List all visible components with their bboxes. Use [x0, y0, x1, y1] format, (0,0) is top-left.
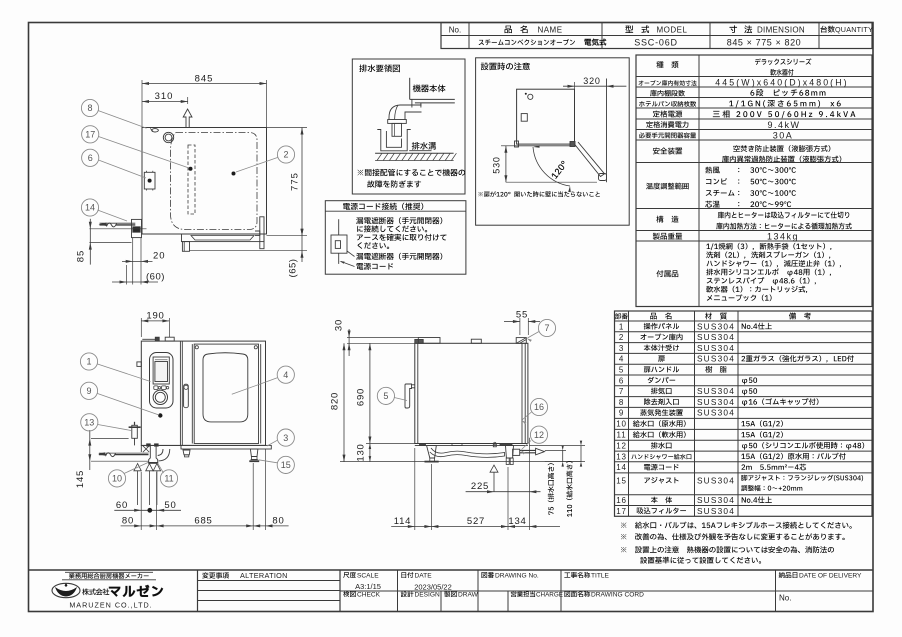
- plan view suction filter (dashed): [188, 145, 195, 214]
- dim (65): [190, 250, 308, 252]
- side: dim 130: [369, 444, 371, 462]
- dim 85 (cord offset): [89, 228, 146, 230]
- front: drain elbow: [158, 449, 170, 461]
- spec table labels: [656, 61, 678, 68]
- spec table values: [755, 58, 811, 65]
- side: bottom base: [415, 445, 528, 447]
- svg-text:12: 12: [534, 430, 544, 440]
- plan: small oval (deliming inlet, balloon 8): [152, 129, 159, 132]
- spec table grid: [636, 55, 872, 307]
- svg-text:134kg: 134kg: [767, 232, 799, 242]
- balloon 10: [124, 463, 148, 474]
- svg-text:No.: No.: [779, 594, 791, 603]
- svg-text:15: 15: [281, 460, 291, 470]
- front: base plate: [181, 445, 271, 449]
- svg-text:No.: No.: [449, 26, 461, 35]
- front: left tab: [137, 362, 141, 367]
- svg-text:MODEL: MODEL: [657, 26, 688, 35]
- front: door: [194, 344, 258, 443]
- front: dim 80/685/80: [140, 472, 142, 530]
- front: door window: [203, 353, 248, 422]
- side: hollow up arrow 225: [490, 465, 498, 492]
- front: under-panel piping: [140, 445, 142, 452]
- power cord box: [325, 201, 466, 275]
- svg-text:80: 80: [272, 515, 284, 526]
- title block grid: [29, 569, 874, 571]
- svg-text:2: 2: [283, 150, 288, 160]
- svg-text:11: 11: [617, 431, 627, 440]
- svg-text:SCALE: SCALE: [357, 573, 379, 580]
- front: dim 145: [91, 438, 129, 440]
- svg-text:130: 130: [355, 443, 366, 461]
- svg-text:225: 225: [471, 481, 489, 492]
- svg-text:134: 134: [508, 516, 526, 527]
- svg-text:30A: 30A: [773, 131, 794, 141]
- balloon 12: [522, 441, 532, 450]
- install: note text: [478, 191, 600, 197]
- side: floor line: [425, 461, 582, 463]
- svg-text:DRAW: DRAW: [458, 592, 479, 599]
- side: drain outlet box and arrow (balloon 12): [513, 449, 520, 455]
- svg-text:14: 14: [616, 463, 627, 472]
- notes: [621, 522, 852, 529]
- svg-text:2023/05/22: 2023/05/22: [414, 582, 452, 591]
- balloon 16: [523, 412, 532, 420]
- drain: ground hatch: [375, 152, 454, 154]
- svg-text:8: 8: [619, 398, 624, 407]
- power: breaker diagram: [338, 219, 340, 235]
- balloon 5: [394, 398, 407, 401]
- svg-text:MARUZEN CO.,LTD.: MARUZEN CO.,LTD.: [69, 601, 152, 610]
- svg-text:(65): (65): [288, 259, 299, 278]
- svg-text:7: 7: [544, 323, 549, 333]
- svg-text:(60): (60): [146, 272, 165, 283]
- svg-text:55: 55: [516, 310, 528, 321]
- plan: left damper component (balloon 6): [144, 172, 155, 189]
- install: dim 530: [501, 145, 517, 147]
- svg-text:SUS304: SUS304: [697, 386, 735, 396]
- svg-text:190: 190: [146, 310, 164, 321]
- title block labels: [202, 572, 229, 578]
- parts table header: [615, 313, 628, 319]
- plan: door handle bar (right): [260, 217, 264, 249]
- svg-text:20: 20: [153, 251, 166, 262]
- svg-text:DATE OF DELIVERY: DATE OF DELIVERY: [799, 573, 862, 580]
- svg-text:2: 2: [619, 333, 624, 342]
- svg-text:6: 6: [619, 376, 624, 385]
- balloon 6: [99, 160, 147, 178]
- svg-text:A3:1/15: A3:1/15: [355, 582, 381, 591]
- side: rear leg: [506, 446, 514, 458]
- top header table row: product name / model / dimension: [479, 39, 575, 45]
- svg-text:5: 5: [383, 391, 388, 401]
- plan: bottom tray: [182, 234, 265, 242]
- svg-text:50: 50: [164, 500, 176, 511]
- drain: floor gutter: [377, 130, 410, 151]
- svg-text:9.4kW: 9.4kW: [767, 120, 800, 130]
- svg-text:17: 17: [85, 130, 95, 140]
- front: top small parts: [142, 338, 155, 340]
- svg-text:3: 3: [283, 433, 288, 443]
- balloon 1: [98, 364, 151, 382]
- side: steam vent tick: [493, 444, 496, 447]
- svg-text:527: 527: [467, 516, 485, 527]
- front: water funnel and drain: [149, 446, 158, 462]
- balloon 15: [259, 460, 278, 463]
- front: panel/door divider: [179, 341, 181, 445]
- svg-text:9: 9: [619, 409, 624, 418]
- side: drain/water height dims: [545, 449, 566, 451]
- svg-text:114: 114: [394, 516, 412, 527]
- front: front-right leg: [250, 449, 258, 457]
- front: control panel bezel: [150, 353, 174, 409]
- svg-text:SUS304: SUS304: [697, 475, 735, 485]
- svg-text:30: 30: [334, 319, 345, 331]
- balloon 2: [236, 158, 278, 173]
- svg-text:CHECK: CHECK: [357, 592, 381, 599]
- dim (60): [126, 265, 128, 285]
- balloon 8: [98, 111, 147, 129]
- install: dim 320: [563, 85, 626, 87]
- plan: cord connector box: [132, 219, 142, 237]
- front: shower valve (balloon 13): [132, 425, 138, 438]
- side: dim 114/527/134: [414, 448, 416, 530]
- side: flexible drain hose: [430, 448, 505, 457]
- svg-text:10: 10: [616, 420, 627, 429]
- svg-text:1: 1: [86, 357, 91, 367]
- balloon 14: [98, 210, 128, 221]
- side: dim 690: [369, 343, 371, 443]
- balloon 17: [99, 137, 190, 169]
- front: dim 190: [140, 318, 142, 337]
- balloon 13: [98, 425, 131, 431]
- svg-text:DESIGN: DESIGN: [415, 592, 441, 599]
- svg-text:445(W)x640(D)x480(H): 445(W)x640(D)x480(H): [715, 77, 848, 87]
- svg-text:SUS304: SUS304: [697, 354, 735, 364]
- svg-text:13: 13: [84, 418, 94, 428]
- side: front leg: [427, 446, 437, 458]
- svg-text:4: 4: [283, 370, 288, 380]
- svg-text:ALTERATION: ALTERATION: [240, 571, 288, 580]
- front: panel dot (balloon 9): [158, 413, 162, 417]
- svg-text:16: 16: [534, 402, 544, 412]
- install: swing arc 120: [533, 147, 570, 186]
- svg-text:14: 14: [85, 203, 95, 213]
- plan view body outline: [142, 128, 267, 235]
- svg-text:11: 11: [164, 474, 173, 484]
- svg-text:4: 4: [619, 355, 624, 364]
- svg-text:80: 80: [122, 515, 134, 526]
- dim 845: [141, 80, 143, 127]
- parts table grid: [615, 311, 873, 516]
- balloon 4: [232, 378, 277, 395]
- svg-text:690: 690: [355, 388, 366, 406]
- front: buttons: [154, 386, 158, 390]
- side: dim 820: [343, 343, 345, 461]
- svg-text:SUS304: SUS304: [697, 408, 735, 418]
- front: display: [153, 357, 169, 384]
- install: oven plan rect: [517, 89, 575, 144]
- drain: down pipe: [392, 123, 402, 136]
- svg-text:1: 1: [619, 322, 624, 331]
- svg-text:7: 7: [619, 387, 624, 396]
- svg-text:85: 85: [76, 250, 87, 263]
- plan node: filter marker dot (balloon 17): [189, 167, 193, 171]
- plan: exhaust direction hollow arrow: [183, 109, 192, 128]
- svg-text:SUS304: SUS304: [697, 321, 735, 331]
- svg-text:CHARGE: CHARGE: [536, 592, 563, 599]
- front: supply arrows (hollow): [134, 464, 141, 506]
- drain: note: [358, 169, 466, 176]
- dim 775: [267, 127, 308, 129]
- install: hinge details: [515, 141, 519, 147]
- svg-text:SSC-06D: SSC-06D: [634, 38, 678, 48]
- drain: gutter label: [412, 142, 436, 150]
- svg-text:16: 16: [616, 496, 627, 505]
- front: knob: [153, 390, 167, 404]
- dim 20: [132, 238, 134, 285]
- svg-text:SUS304: SUS304: [697, 343, 735, 353]
- balloon 9: [98, 394, 160, 416]
- drain: elbow: [389, 105, 422, 120]
- svg-text:DIMENSION: DIMENSION: [757, 26, 805, 35]
- svg-text:845: 845: [195, 74, 214, 85]
- svg-text:SUS304: SUS304: [697, 397, 735, 407]
- install: wall line: [606, 79, 608, 183]
- side view body: [415, 343, 528, 443]
- svg-text:685: 685: [194, 515, 212, 526]
- svg-text:SUS304: SUS304: [697, 332, 735, 342]
- plan: power cord (balloon 14): [100, 224, 108, 226]
- svg-text:6: 6: [88, 153, 93, 163]
- svg-text:DRAWING No.: DRAWING No.: [495, 573, 539, 580]
- plan: left foot: [182, 242, 189, 252]
- svg-text:820: 820: [330, 392, 341, 410]
- side: dim 55: [519, 318, 521, 335]
- svg-text:775: 775: [290, 172, 301, 191]
- side: dim 225: [466, 491, 541, 493]
- balloon 7: [528, 332, 540, 339]
- side: top parts: [415, 340, 423, 344]
- balloon 3: [267, 440, 277, 446]
- svg-text:17: 17: [616, 507, 627, 516]
- dim 310: [142, 101, 188, 103]
- install: open door: [575, 142, 605, 177]
- svg-text:DRAWING CORD: DRAWING CORD: [591, 592, 644, 599]
- svg-text:5: 5: [619, 366, 624, 375]
- svg-text:QUANTITY: QUANTITY: [835, 25, 873, 34]
- top header table grid: [441, 23, 872, 49]
- svg-text:845 × 775 × 820: 845 × 775 × 820: [727, 38, 802, 48]
- side: door handle: [405, 384, 412, 408]
- svg-text:15: 15: [616, 476, 627, 485]
- front: front-left leg: [183, 450, 190, 455]
- svg-text:TITLE: TITLE: [591, 573, 610, 580]
- install note box: [476, 58, 630, 225]
- svg-text:320: 320: [583, 76, 600, 86]
- svg-text:530: 530: [492, 156, 502, 173]
- svg-text:9: 9: [86, 386, 91, 396]
- svg-text:145: 145: [75, 470, 86, 488]
- side: dim 30: [347, 337, 418, 339]
- svg-text:10: 10: [112, 474, 122, 484]
- plan view chamber chain-line outline: [171, 133, 258, 230]
- svg-text:DATE: DATE: [415, 573, 433, 580]
- title block company cell: [65, 571, 153, 573]
- balloon 11: [158, 463, 164, 473]
- drain detail box: [352, 59, 465, 194]
- plan node: oven interior dot (balloon 2): [232, 172, 236, 176]
- svg-text:3: 3: [619, 344, 624, 353]
- svg-text:SUS304: SUS304: [697, 495, 735, 505]
- svg-text:310: 310: [155, 91, 174, 102]
- plan: exhaust ring: [163, 132, 173, 142]
- front: door handle: [184, 384, 189, 408]
- svg-text:SUS304: SUS304: [697, 506, 735, 516]
- svg-text:NAME: NAME: [537, 26, 562, 35]
- svg-text:60: 60: [116, 500, 128, 511]
- maruzen logo mark: [52, 583, 80, 597]
- front view body: [141, 341, 265, 445]
- svg-text:8: 8: [87, 103, 92, 113]
- svg-text:13: 13: [616, 452, 627, 461]
- drain: machine outline: [409, 78, 411, 100]
- front: hand shower pipe: [99, 454, 107, 456]
- front: dim 60/50: [114, 509, 181, 511]
- svg-text:12: 12: [616, 442, 627, 451]
